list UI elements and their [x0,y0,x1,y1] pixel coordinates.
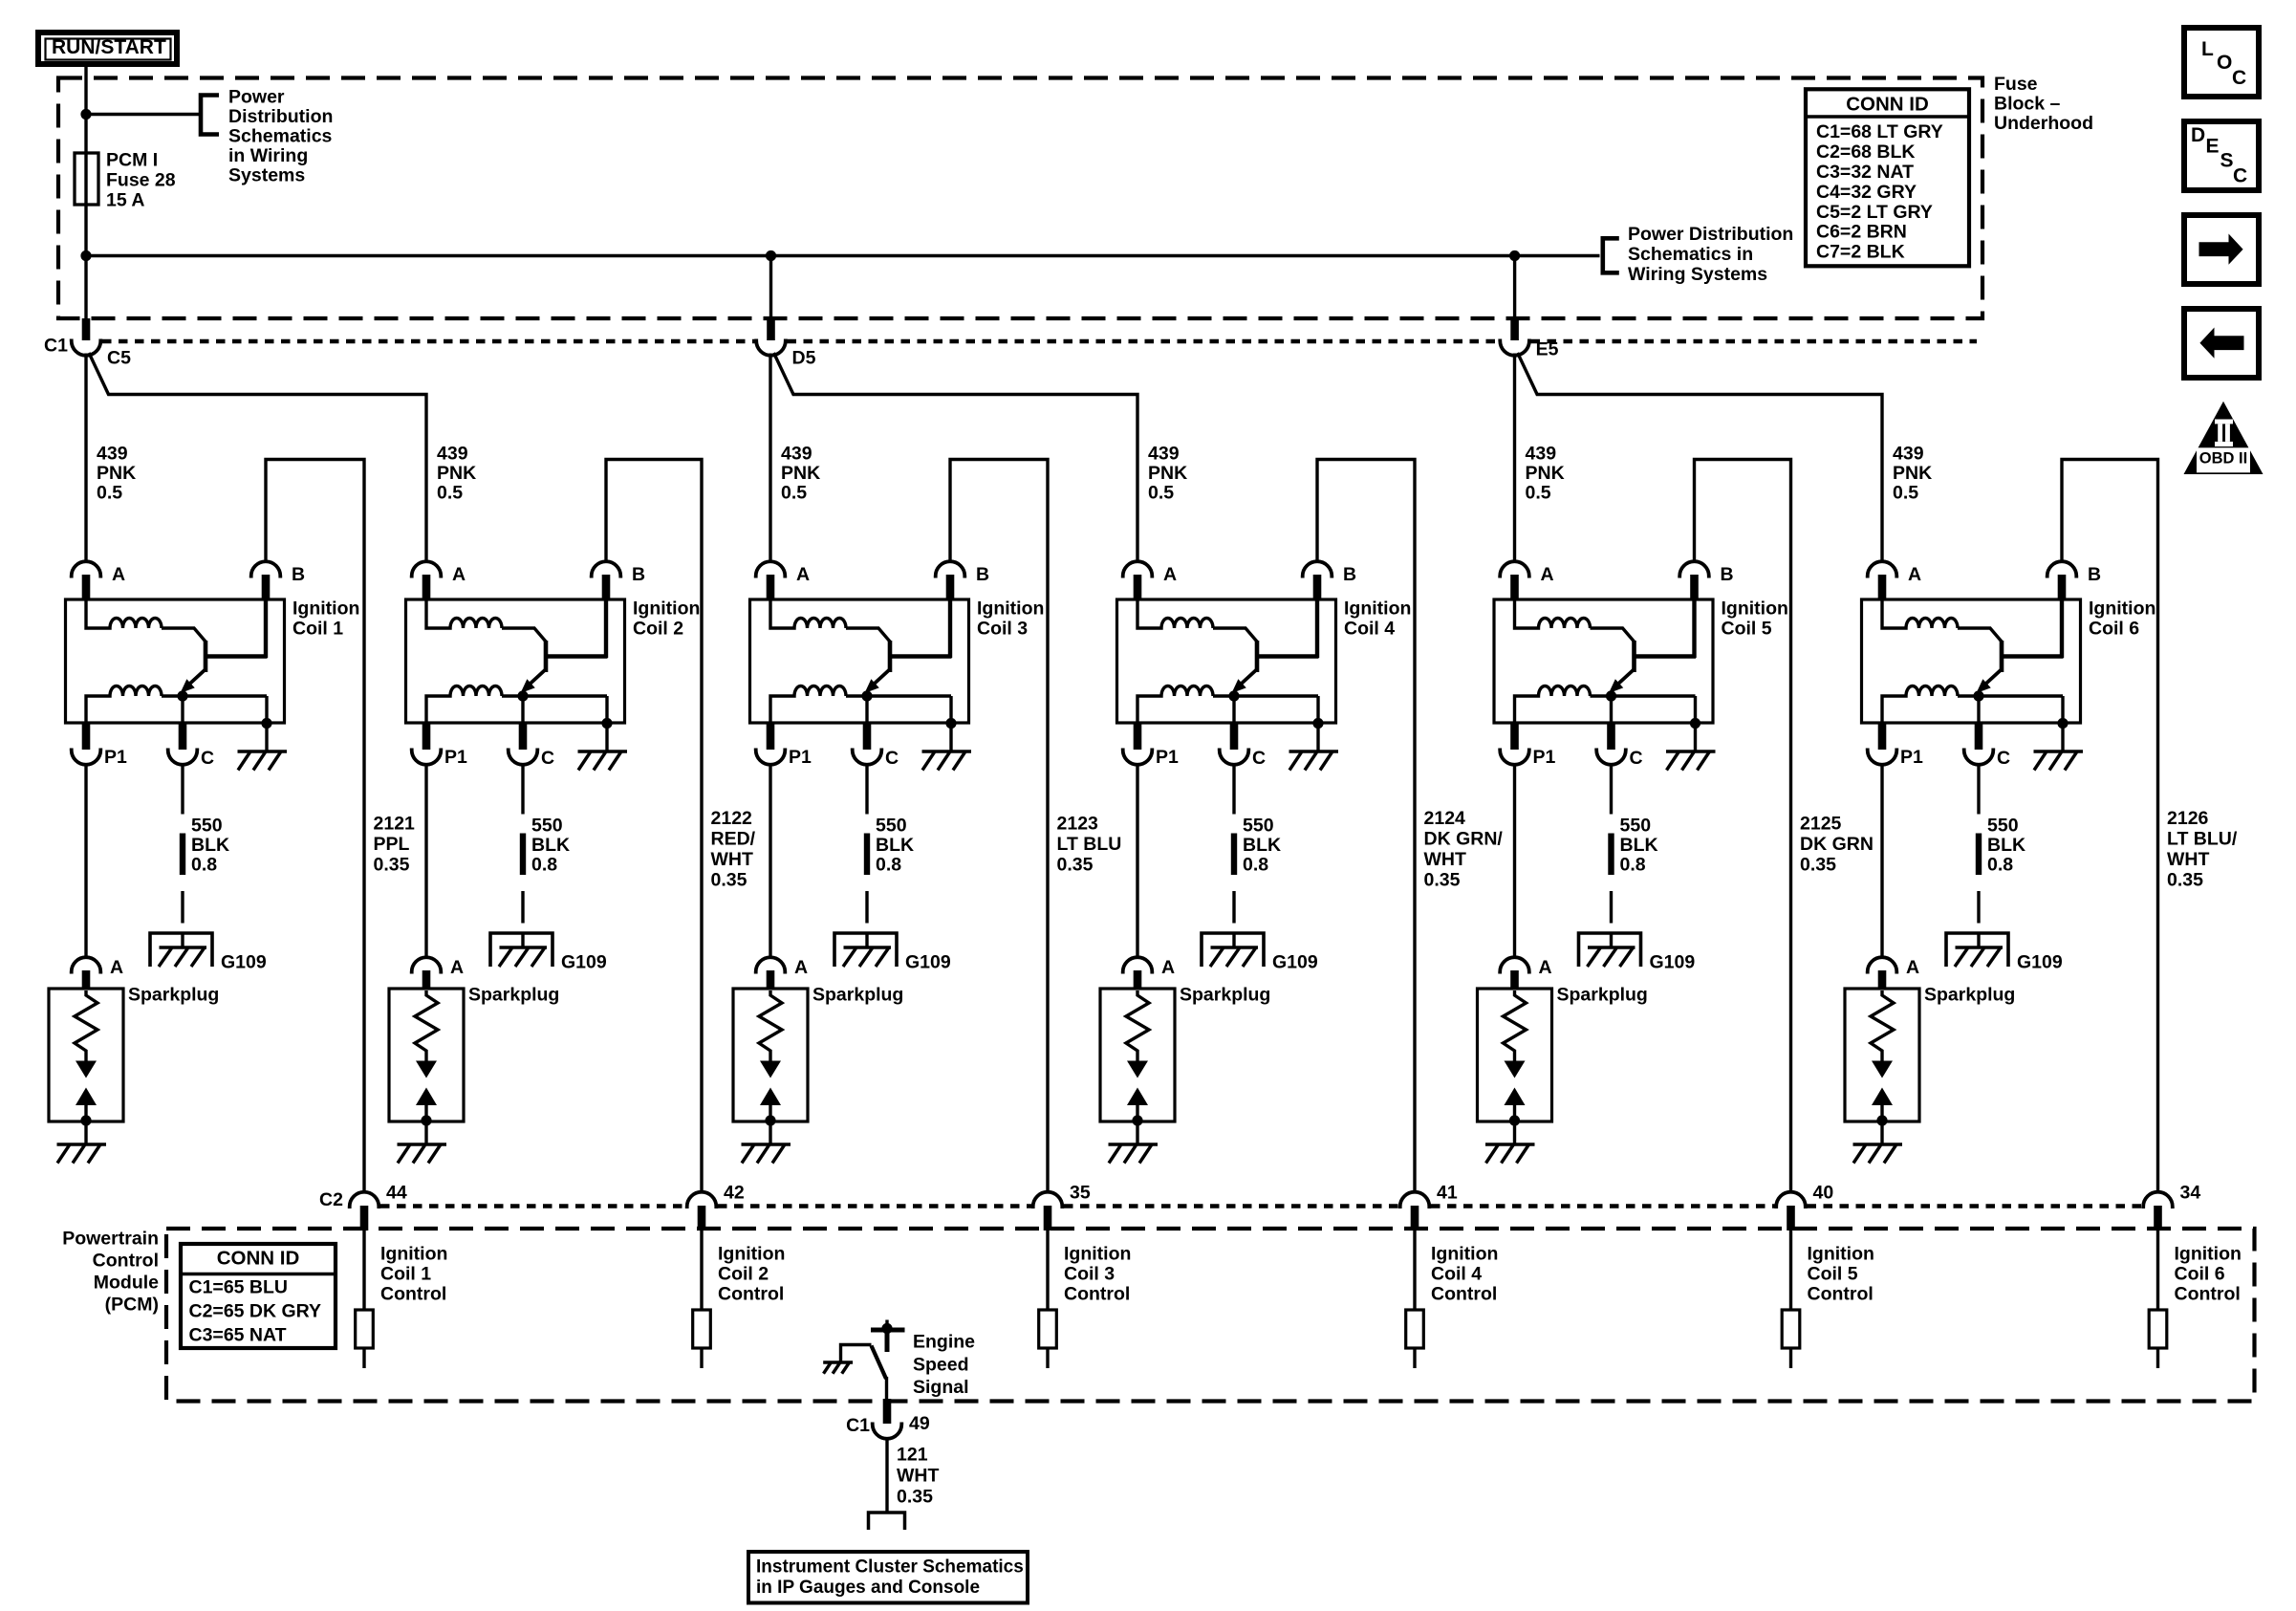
svg-text:0.5: 0.5 [97,483,122,504]
svg-text:P1: P1 [1156,747,1179,768]
connector pin P1 coil 1 [82,724,91,750]
svg-text:439: 439 [1526,444,1557,465]
transistor Q3 igniter [888,641,893,672]
connector table CONN ID fuse block [1806,89,1969,266]
ground sparkplug 6 [1853,1143,1903,1145]
off-page connector to instrument cluster [869,1513,905,1530]
svg-text:PPL: PPL [374,834,410,855]
junction node case ground coil 4 [1312,718,1323,729]
svg-text:Control: Control [718,1284,784,1305]
ground coil 5 case [1666,750,1716,752]
ground coil 6 case [2034,750,2084,752]
svg-text:Sparkplug: Sparkplug [128,985,219,1006]
primary winding coil 1 [86,600,162,628]
svg-text:Power: Power [228,87,285,108]
wire P1 to sparkplug 3 [769,763,771,959]
svg-text:Module: Module [94,1273,159,1294]
svg-text:2124: 2124 [1424,808,1466,829]
wire 439 PNK feed to coil 6 [1518,353,1882,562]
connector pin A sparkplug 1 [72,957,101,973]
svg-text:Sparkplug: Sparkplug [1557,985,1648,1006]
svg-text:C: C [541,748,554,769]
connector pin B coil 2 [592,561,621,577]
PCM output driver coil 3 [1039,1310,1057,1348]
junction node emitter secondary coil 3 [861,690,872,701]
svg-text:Control: Control [380,1284,446,1305]
wire secondary to case ground coil 3 [949,696,952,751]
ground coil 4 case [1289,750,1339,752]
wire sparkplug 3 to ground [769,1121,771,1144]
connector pin B coil 1 [251,561,281,577]
wire 439 PNK feed to coil 4 [774,353,1138,562]
connector pin A sparkplug 3 [756,957,786,973]
svg-text:Powertrain: Powertrain [62,1229,159,1250]
sparkplug 4 resistor [1126,991,1149,1061]
primary winding coil 5 [1515,600,1591,628]
svg-text:Sparkplug: Sparkplug [468,985,559,1006]
secondary winding coil 2 [426,686,502,725]
connector pin C coil 1 [181,696,184,724]
svg-text:Sparkplug: Sparkplug [812,985,903,1006]
svg-text:BLK: BLK [191,835,229,856]
svg-text:G109: G109 [1650,952,1696,973]
svg-text:BLK: BLK [1620,835,1658,856]
svg-text:RUN/START: RUN/START [52,36,166,58]
wire pin 44 to driver coil 1 [362,1230,365,1310]
wire 439 PNK feed to coil 3 [769,354,771,563]
svg-text:A: A [796,564,810,585]
svg-text:40: 40 [1813,1183,1834,1204]
svg-text:A: A [1161,957,1175,978]
svg-text:E5: E5 [1536,339,1559,360]
svg-text:0.8: 0.8 [531,855,557,876]
svg-text:WHT: WHT [1424,849,1466,870]
wire P1 to sparkplug 1 [84,763,87,959]
power bus wire inside fuse block [86,254,1600,257]
sparkplug 3 resistor [759,991,782,1061]
wire P1 to sparkplug 6 [1880,763,1883,959]
primary winding coil 6 [1882,600,1958,628]
svg-text:Ignition: Ignition [1064,1244,1131,1265]
svg-text:0.8: 0.8 [191,855,217,876]
svg-text:Control: Control [1808,1284,1874,1305]
svg-text:0.35: 0.35 [374,855,410,876]
wire ignition coil 6 control B to PCM [2062,460,2158,1193]
wire secondary to case ground coil 2 [605,696,608,751]
ignition coil 3 box [750,599,969,723]
svg-text:44: 44 [386,1183,407,1204]
ignition coil 1 box [66,599,285,723]
wire sparkplug 1 to ground [84,1121,87,1144]
svg-text:0.35: 0.35 [711,870,747,891]
svg-text:in Wiring: in Wiring [228,145,308,166]
svg-text:550: 550 [876,816,907,837]
connector pin A coil 5 [1500,561,1529,577]
wire bus to connector E5 [1513,256,1516,320]
wire 550 BLK coil 2 (dashed) [521,764,524,815]
svg-text:0.8: 0.8 [1620,855,1646,876]
svg-text:A: A [452,564,466,585]
connector pin A sparkplug 6 [1868,957,1897,973]
svg-text:C5: C5 [107,348,131,369]
svg-text:Ignition: Ignition [380,1244,447,1265]
connector pin C coil 6 [1977,696,1980,724]
svg-text:Ignition: Ignition [2175,1244,2242,1265]
connector pin P1 coil 5 [1510,724,1519,750]
svg-text:Coil 4: Coil 4 [1344,619,1395,640]
ignition coil 6 box [1862,599,2081,723]
junction node on feed wire [80,109,91,120]
wire 121 WHT to instrument cluster [885,1437,888,1513]
svg-text:Ignition: Ignition [1722,599,1788,620]
svg-text:BLK: BLK [1243,835,1281,856]
svg-text:Ignition: Ignition [977,599,1044,620]
connector pin A coil 3 [756,561,786,577]
svg-text:OBD II: OBD II [2199,450,2247,468]
wire 550 BLK coil 5 (dashed) [1610,764,1613,815]
svg-text:A: A [1163,564,1177,585]
wire sparkplug 5 to ground [1513,1121,1516,1144]
wire pin 35 to driver coil 3 [1046,1230,1049,1310]
svg-text:439: 439 [1148,444,1180,465]
svg-text:PNK: PNK [437,463,476,484]
svg-text:550: 550 [531,816,563,837]
svg-text:CONN ID: CONN ID [1846,94,1929,116]
sparkplug 5 resistor [1504,991,1527,1061]
connector pin P1 coil 2 [422,724,431,750]
button forward arrow [2184,215,2259,284]
svg-text:Systems: Systems [228,165,305,186]
svg-text:C6=2 BRN: C6=2 BRN [1816,222,1907,243]
svg-text:Fuse: Fuse [1994,74,2038,95]
fuse F28 PCM I [75,153,98,205]
svg-text:42: 42 [724,1183,745,1204]
svg-text:C3=65 NAT: C3=65 NAT [189,1325,287,1346]
svg-text:C4=32 GRY: C4=32 GRY [1816,182,1917,203]
junction node sparkplug 2 shell [421,1115,431,1125]
svg-text:A: A [450,957,464,978]
fuse block underhood dashed enclosure [58,78,1982,319]
connector PCM C1 pin 49 [873,1423,902,1439]
svg-text:C: C [1997,748,2010,769]
primary winding coil 2 [426,600,502,628]
svg-text:BLK: BLK [876,835,914,856]
connector pin B coil 6 [2047,561,2077,577]
ground G109 coil 3 [834,933,897,967]
svg-text:0.5: 0.5 [781,483,807,504]
svg-text:L: L [2201,38,2214,60]
svg-text:Signal: Signal [913,1377,969,1398]
sparkplug 6 box [1845,989,1919,1121]
svg-text:Wiring Systems: Wiring Systems [1628,264,1767,285]
sparkplug 5 box [1478,989,1552,1121]
wire pin 40 to driver coil 5 [1789,1230,1792,1310]
svg-text:WHT: WHT [2167,849,2209,870]
ground sparkplug 1 [57,1143,107,1145]
connector pin B coil 3 [936,561,965,577]
transistor Q6 igniter [2000,641,2004,672]
junction node sparkplug 4 shell [1132,1115,1142,1125]
secondary winding coil 5 [1515,686,1591,725]
ground G109 coil 1 [150,933,212,967]
svg-text:A: A [794,957,808,978]
wire ignition coil 1 control B to PCM [266,460,364,1193]
wire ignition coil 3 control B to PCM [950,460,1048,1193]
svg-text:Ignition: Ignition [633,599,700,620]
svg-text:D: D [2191,124,2205,146]
junction node emitter secondary coil 1 [177,690,187,701]
svg-text:Coil 6: Coil 6 [2175,1264,2225,1285]
svg-text:LT BLU: LT BLU [1057,834,1122,855]
svg-text:Engine: Engine [913,1332,975,1353]
svg-text:0.35: 0.35 [1800,855,1836,876]
svg-text:439: 439 [437,444,468,465]
wire ignition coil 2 control B to PCM [606,460,702,1193]
ground coil 3 case [922,750,972,752]
svg-text:C1: C1 [846,1415,870,1436]
PCM output driver coil 6 [2149,1310,2167,1348]
connector D5 [756,339,786,356]
connector pin A coil 4 [1123,561,1153,577]
svg-text:C7=2 BLK: C7=2 BLK [1816,242,1905,263]
ground G109 coil 6 [1946,933,2008,967]
sparkplug 1 resistor [75,991,97,1061]
svg-text:439: 439 [1893,444,1924,465]
junction node sparkplug 3 shell [765,1115,775,1125]
svg-text:A: A [110,957,123,978]
secondary winding coil 3 [770,686,846,725]
connector pin P1 coil 6 [1878,724,1887,750]
off-page bracket power distribution (right) [1603,238,1619,272]
svg-text:34: 34 [2180,1183,2201,1204]
button DESC [2184,121,2259,190]
svg-text:Ignition: Ignition [1808,1244,1874,1265]
wire P1 to sparkplug 4 [1136,763,1138,959]
ground coil 1 case [238,750,288,752]
connector pin A sparkplug 2 [412,957,442,973]
connector PCM pin 44 [350,1192,379,1208]
svg-text:B: B [292,564,305,585]
wire 550 BLK coil 3 (dashed) [865,764,868,815]
ignition coil 5 box [1494,599,1713,723]
svg-text:C1: C1 [44,336,68,357]
svg-text:0.5: 0.5 [1893,483,1918,504]
transistor Q1 igniter [204,641,208,672]
wire 439 PNK feed to coil 2 [89,353,426,562]
svg-text:Block –: Block – [1994,94,2061,115]
wire P1 to sparkplug 2 [424,763,427,959]
connector PCM pin 42 [687,1192,717,1208]
svg-text:C2: C2 [319,1189,343,1210]
svg-text:550: 550 [1987,816,2019,837]
sparkplug 6 gap electrodes [1872,1061,1893,1078]
junction node sparkplug 6 shell [1876,1115,1887,1125]
svg-text:(PCM): (PCM) [105,1295,159,1316]
svg-text:P1: P1 [104,747,127,768]
junction node bus at D5 [766,250,776,261]
PCM output driver coil 1 [356,1310,374,1348]
svg-text:PCM I: PCM I [106,150,158,171]
PCM output driver coil 4 [1406,1310,1424,1348]
connector pin C coil 4 [1232,696,1235,724]
svg-text:C1=65 BLU: C1=65 BLU [189,1277,289,1298]
svg-text:C5=2 LT GRY: C5=2 LT GRY [1816,202,1933,223]
ground sparkplug 2 [398,1143,447,1145]
transistor Q4 igniter [1255,641,1260,672]
svg-text:0.35: 0.35 [1057,855,1094,876]
svg-text:DK GRN/: DK GRN/ [1424,829,1504,850]
connector C5 terminal stub [82,318,91,340]
connector pin P1 coil 3 [767,724,775,750]
connector pin A coil 6 [1868,561,1897,577]
svg-text:Schematics in: Schematics in [1628,244,1753,265]
secondary winding coil 1 [86,686,162,725]
svg-text:Coil 6: Coil 6 [2089,619,2139,640]
svg-text:Coil 2: Coil 2 [718,1264,769,1285]
wire to power distribution reference [86,113,199,116]
engine speed signal pickup [871,1328,905,1333]
svg-text:Schematics: Schematics [228,126,333,147]
svg-text:Speed: Speed [913,1355,969,1376]
svg-text:Control: Control [2175,1284,2241,1305]
connector pin C coil 2 [521,696,524,724]
svg-text:121: 121 [897,1445,928,1466]
secondary winding coil 4 [1137,686,1213,725]
svg-text:Distribution: Distribution [228,106,333,127]
button LOC [2184,28,2259,97]
svg-text:C: C [2233,164,2247,186]
sparkplug 6 resistor [1871,991,1894,1061]
svg-text:B: B [976,564,989,585]
junction node emitter secondary coil 6 [1973,690,1983,701]
svg-text:C: C [2232,67,2246,89]
svg-text:in IP Gauges and Console: in IP Gauges and Console [756,1578,980,1598]
connector C5 [72,339,101,356]
wire 550 BLK coil 6 (dashed) [1977,764,1980,815]
svg-text:550: 550 [1243,816,1274,837]
connector E5 terminal stub [1510,318,1519,340]
svg-text:Coil 1: Coil 1 [292,619,343,640]
svg-text:C1=68 LT GRY: C1=68 LT GRY [1816,121,1943,142]
ignition coil 4 box [1117,599,1336,723]
svg-text:550: 550 [191,816,223,837]
junction node case ground coil 2 [601,718,612,729]
wire P1 to sparkplug 5 [1513,763,1516,959]
junction node fuse output to bus [80,250,91,261]
junction node sparkplug 5 shell [1509,1115,1520,1125]
sparkplug 4 gap electrodes [1127,1061,1148,1078]
svg-text:Coil 5: Coil 5 [1808,1264,1858,1285]
connector face line PCM (dotted) [380,1204,685,1208]
connector pin B coil 5 [1679,561,1709,577]
svg-text:B: B [2088,564,2101,585]
svg-text:Ignition: Ignition [292,599,359,620]
svg-text:0.5: 0.5 [437,483,463,504]
button back arrow [2184,309,2259,378]
svg-text:Fuse 28: Fuse 28 [106,170,176,191]
svg-text:49: 49 [909,1413,930,1434]
svg-text:RED/: RED/ [711,829,756,850]
off-page bracket power distribution (top) [201,96,219,135]
svg-text:PNK: PNK [97,463,136,484]
svg-text:0.35: 0.35 [1424,870,1461,891]
svg-text:G109: G109 [1272,952,1318,973]
svg-text:B: B [632,564,645,585]
wire engine speed signal to connector C1 pin 49 [885,1377,888,1400]
wire 439 PNK feed to coil 5 [1513,354,1516,563]
svg-text:WHT: WHT [897,1466,939,1487]
svg-text:LT BLU/: LT BLU/ [2167,829,2238,850]
connector pin B coil 4 [1303,561,1332,577]
primary winding coil 3 [770,600,846,628]
wire secondary to case ground coil 1 [265,696,268,751]
svg-text:Sparkplug: Sparkplug [1180,985,1270,1006]
svg-text:Underhood: Underhood [1994,113,2093,134]
svg-text:PNK: PNK [1526,463,1565,484]
ground G109 coil 2 [490,933,552,967]
reference box Instrument Cluster Schematics [748,1552,1028,1603]
connector pin A sparkplug 4 [1123,957,1153,973]
connector PCM pin 34 [2143,1192,2173,1208]
svg-text:G109: G109 [2017,952,2063,973]
ground coil 2 case [578,750,628,752]
connector pin A coil 2 [412,561,442,577]
svg-text:Coil 3: Coil 3 [1064,1264,1115,1285]
svg-text:P1: P1 [1900,747,1923,768]
icon OBD II warning triangle [2184,402,2264,474]
sparkplug 2 resistor [415,991,438,1061]
svg-text:P1: P1 [444,747,467,768]
svg-text:A: A [1539,957,1552,978]
svg-text:O: O [2217,52,2232,74]
wire secondary to case ground coil 4 [1316,696,1319,751]
svg-text:0.5: 0.5 [1526,483,1551,504]
wire secondary to case ground coil 6 [2061,696,2064,751]
svg-text:15 A: 15 A [106,190,144,211]
ground engine speed pickup [823,1361,853,1363]
wire 550 BLK coil 1 (dashed) [181,764,184,815]
connector PCM pin 35 [1033,1192,1063,1208]
svg-text:Ignition: Ignition [2089,599,2155,620]
wire from RUN/START through fuse [84,67,87,318]
connector D5 terminal stub [767,318,775,340]
powertrain control module dashed enclosure [166,1229,2255,1402]
junction node case ground coil 1 [261,718,271,729]
svg-text:Coil 2: Coil 2 [633,619,683,640]
svg-text:B: B [1721,564,1734,585]
switch feed label box RUN/START [38,33,177,64]
svg-text:P1: P1 [1533,747,1556,768]
connector PCM pin 40 [1776,1192,1806,1208]
svg-text:PNK: PNK [1893,463,1932,484]
sparkplug 2 box [389,989,464,1121]
ground sparkplug 3 [742,1143,791,1145]
wire 439 PNK feed to coil 1 [84,354,87,563]
svg-text:S: S [2220,149,2234,171]
svg-text:C: C [1630,748,1643,769]
junction node case ground coil 5 [1690,718,1700,729]
svg-text:G109: G109 [561,952,607,973]
svg-text:Coil 3: Coil 3 [977,619,1028,640]
svg-text:2126: 2126 [2167,808,2209,829]
svg-text:PNK: PNK [781,463,820,484]
svg-text:C: C [201,748,214,769]
svg-text:DK GRN: DK GRN [1800,834,1874,855]
transistor Q5 igniter [1632,641,1636,672]
svg-text:41: 41 [1437,1183,1458,1204]
svg-text:B: B [1343,564,1356,585]
wire sparkplug 6 to ground [1880,1121,1883,1144]
